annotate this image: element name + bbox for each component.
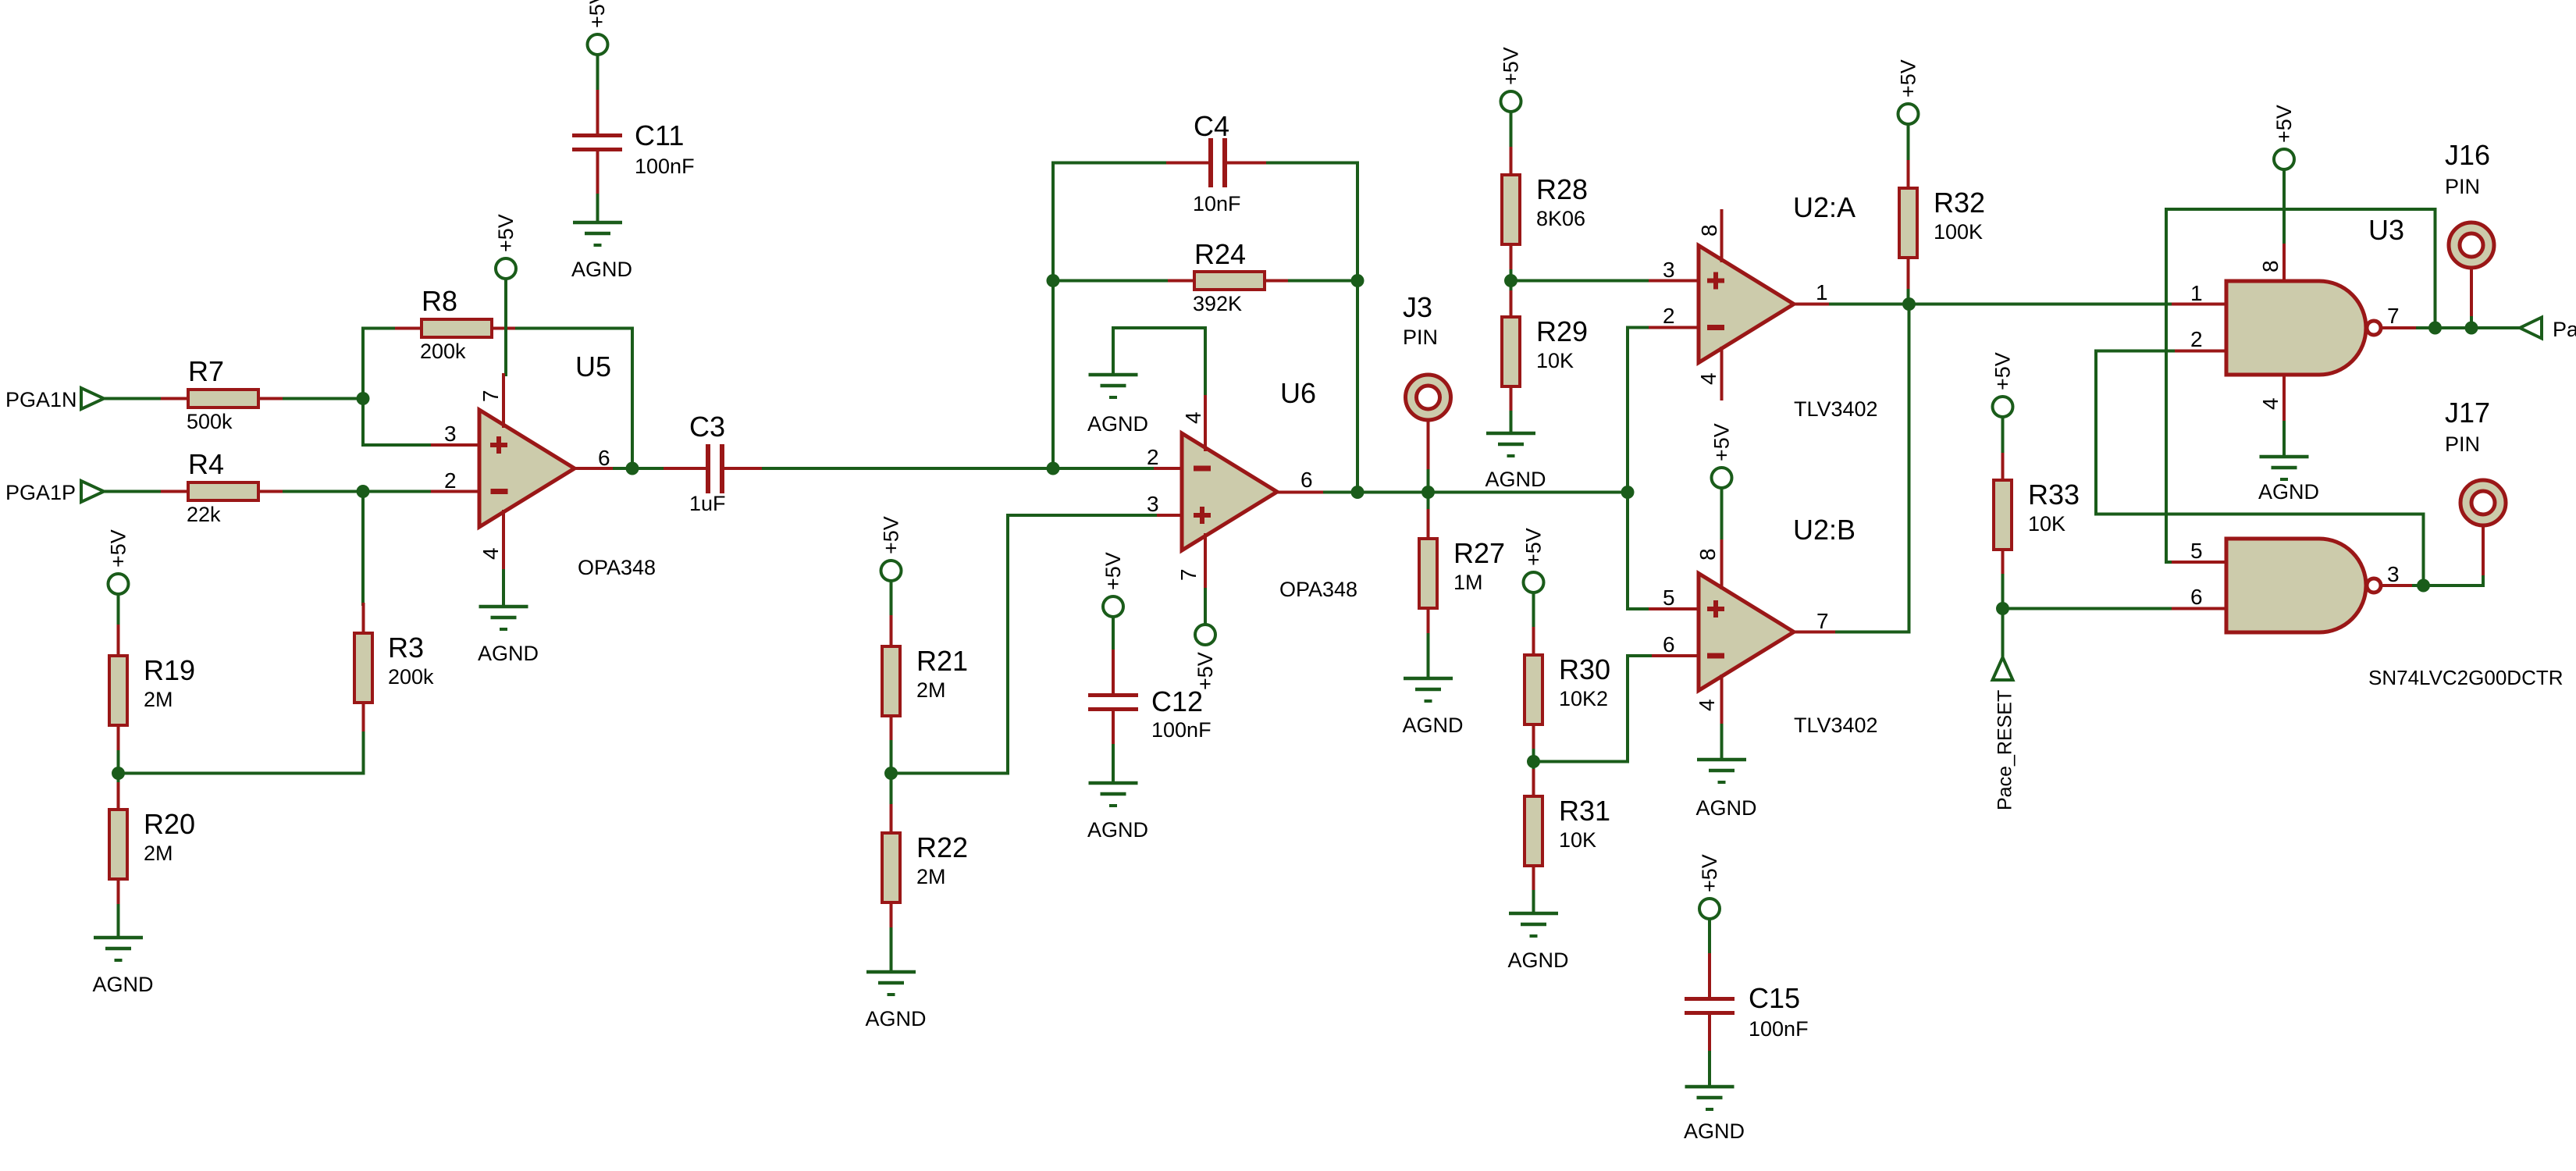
- svg-text:R4: R4: [188, 448, 224, 480]
- label AGND R29: [1485, 468, 1546, 491]
- svg-text:4: 4: [1695, 699, 1719, 711]
- resistor R22: [882, 806, 900, 929]
- svg-text:1: 1: [2190, 281, 2203, 305]
- svg-text:TLV3402: TLV3402: [1794, 397, 1878, 421]
- svg-text:Pa: Pa: [2553, 318, 2576, 341]
- value 10nF: [1193, 192, 1241, 215]
- svg-text:+5V: +5V: [1522, 528, 1546, 566]
- label J16: [2445, 139, 2490, 171]
- svg-text:U2:A: U2:A: [1793, 191, 1856, 223]
- wire U3B out: [2414, 584, 2424, 587]
- wire R30 to node M: [1532, 750, 1535, 762]
- svg-text:R20: R20: [144, 808, 195, 840]
- svg-text:6: 6: [1300, 468, 1313, 492]
- node D junction U5out/R8: [626, 462, 639, 475]
- value 22k: [187, 503, 221, 526]
- svg-text:C3: C3: [689, 411, 725, 443]
- label U3: [2368, 214, 2404, 246]
- wire feedback left vertical: [1051, 163, 1055, 469]
- node K junction R28/R29/pin3: [1504, 274, 1517, 287]
- wire R7 to node A: [284, 397, 363, 400]
- comparator U2:B: [1699, 574, 1794, 691]
- net label PGA1P: [5, 481, 76, 504]
- resistor R29: [1502, 292, 1520, 412]
- pin 6 stub U3B: [2173, 607, 2226, 610]
- wire PGA1N to R7: [104, 397, 162, 400]
- pin number 3 U6: [1147, 492, 1159, 516]
- pin number 5 U2B: [1663, 585, 1675, 610]
- label OPA348 U6: [1279, 578, 1357, 601]
- svg-text:AGND: AGND: [1485, 468, 1546, 491]
- pin number 2 U2A: [1663, 304, 1675, 328]
- svg-text:OPA348: OPA348: [578, 556, 656, 579]
- pin number 2 U6: [1147, 445, 1159, 469]
- wire node B down to R3: [361, 492, 365, 605]
- svg-text:6: 6: [1663, 632, 1675, 657]
- svg-text:AGND: AGND: [2258, 480, 2319, 504]
- svg-text:+5V: +5V: [107, 529, 130, 568]
- label +5V R32: [1897, 59, 1920, 98]
- wire J3 stem: [1427, 419, 1430, 493]
- power +5V terminal U2B: [1712, 468, 1732, 488]
- value 10K2: [1559, 687, 1608, 710]
- label AGND C11: [571, 258, 632, 281]
- wire +5V to R28: [1510, 112, 1513, 148]
- wire R29 to ground: [1510, 412, 1513, 433]
- ground AGND C15: [1685, 1087, 1735, 1109]
- node E junction feedback left: [1047, 462, 1060, 475]
- wire +5V to R32: [1907, 124, 1910, 162]
- svg-text:2M: 2M: [916, 678, 946, 702]
- ground AGND R20: [94, 938, 143, 960]
- wire node O to U3B pin6: [2003, 607, 2174, 610]
- pin 2 stub U2A: [1650, 326, 1699, 329]
- label PIN J16: [2445, 175, 2480, 198]
- svg-text:+5V: +5V: [1710, 423, 1734, 461]
- svg-text:2: 2: [1663, 304, 1675, 328]
- label R27: [1453, 537, 1505, 569]
- svg-text:4: 4: [2258, 397, 2282, 410]
- ground AGND U2B: [1697, 760, 1746, 782]
- label AGND R31: [1507, 949, 1568, 972]
- svg-text:7: 7: [1176, 568, 1201, 581]
- label C15: [1749, 982, 1800, 1014]
- wire +5V to C12: [1112, 617, 1115, 651]
- svg-text:100nF: 100nF: [1151, 718, 1212, 742]
- svg-text:+5V: +5V: [2272, 105, 2296, 143]
- power +5V terminal R32: [1898, 104, 1919, 124]
- label +5V U6pin7: [1194, 652, 1217, 690]
- label R8: [422, 285, 457, 317]
- pin 3 stub U5: [432, 443, 479, 447]
- svg-text:J17: J17: [2445, 397, 2490, 429]
- svg-text:4: 4: [1696, 372, 1720, 385]
- svg-text:R21: R21: [916, 645, 968, 677]
- pin 8 stub U2B: [1720, 538, 1724, 588]
- wire U2B out: [1837, 631, 1909, 634]
- wire node M to R31: [1532, 762, 1535, 771]
- pin number 8 U3A: [2258, 260, 2282, 272]
- resistor R21: [882, 617, 900, 742]
- resistor R7: [162, 390, 284, 408]
- svg-text:+5V: +5V: [1500, 47, 1523, 85]
- node J junction J3/R27: [1421, 486, 1435, 499]
- label R4: [188, 448, 224, 480]
- svg-text:J3: J3: [1403, 291, 1432, 323]
- svg-text:U6: U6: [1280, 377, 1316, 409]
- label R24: [1194, 238, 1246, 270]
- resistor R3: [354, 604, 372, 733]
- svg-text:2M: 2M: [916, 865, 946, 888]
- pin 2 stub U6: [1155, 467, 1182, 470]
- pin 7 stub U5: [502, 375, 505, 426]
- ground AGND R31: [1509, 913, 1558, 936]
- label R30: [1559, 653, 1610, 685]
- power +5V terminal R33: [1993, 397, 2013, 417]
- input terminal Pace_RESET: [1993, 657, 2013, 680]
- label C12: [1151, 685, 1203, 717]
- svg-text:5: 5: [2190, 539, 2203, 563]
- svg-text:3: 3: [1147, 492, 1159, 516]
- pin number 8 U2B: [1695, 548, 1720, 561]
- wire pin3 U5: [363, 443, 432, 447]
- svg-text:1uF: 1uF: [689, 492, 726, 515]
- label R19: [144, 654, 195, 686]
- connector J17 pad: [2460, 480, 2506, 525]
- svg-text:100nF: 100nF: [635, 155, 695, 178]
- resistor R4: [162, 482, 284, 500]
- node G junction R24 right: [1351, 274, 1364, 287]
- pin number 1 U2A: [1816, 280, 1828, 304]
- svg-text:10K: 10K: [2028, 512, 2065, 536]
- label TLV3402 U2B: [1794, 714, 1878, 737]
- nand gate U3:A: [2226, 281, 2366, 375]
- nand gate U3:B: [2226, 539, 2366, 632]
- label AGND R27: [1402, 714, 1463, 737]
- value 2M R21: [916, 678, 946, 702]
- value 100nF C12: [1151, 718, 1212, 742]
- op-amp U5 plus: [490, 436, 507, 454]
- svg-text:R32: R32: [1934, 187, 1985, 219]
- wire U3A out: [2418, 326, 2520, 329]
- svg-text:AGND: AGND: [865, 1007, 926, 1030]
- svg-text:R7: R7: [188, 355, 224, 387]
- svg-text:2M: 2M: [144, 842, 173, 865]
- wire R24 left: [1053, 279, 1169, 283]
- resistor R28: [1502, 148, 1520, 271]
- wire node H to U6 pin3: [891, 515, 1156, 774]
- power +5V terminal U6: [1195, 625, 1215, 645]
- wire U2 inputs vertical: [1626, 328, 1629, 610]
- pin number 4 U2B: [1695, 699, 1719, 711]
- label U2:B: [1793, 514, 1856, 546]
- label PIN J17: [2445, 432, 2480, 456]
- ground AGND R29: [1486, 433, 1535, 456]
- value 1M: [1453, 571, 1483, 594]
- svg-text:1M: 1M: [1453, 571, 1483, 594]
- value 10K R29: [1536, 349, 1574, 372]
- pin number 1 U3A: [2190, 281, 2203, 305]
- connector J3 pad: [1406, 375, 1451, 420]
- label U6: [1280, 377, 1316, 409]
- output bubble U3A: [2367, 321, 2381, 335]
- svg-text:PIN: PIN: [2445, 175, 2480, 198]
- input terminal PGA1N: [81, 388, 104, 409]
- capacitor C3: [665, 444, 763, 493]
- op-amp U6: [1182, 433, 1277, 550]
- wire U6 pin7 to +5V: [1204, 589, 1207, 625]
- label U5: [575, 351, 611, 383]
- label J3: [1403, 291, 1432, 323]
- power +5V terminal R19: [109, 574, 129, 594]
- label OPA348 U5: [578, 556, 656, 579]
- svg-text:4: 4: [1181, 411, 1205, 424]
- pin 5 stub U2B: [1650, 607, 1699, 610]
- ground AGND U6: [1089, 375, 1138, 397]
- svg-text:+5V: +5V: [1897, 59, 1920, 98]
- svg-text:+5V: +5V: [494, 214, 518, 252]
- pin number 3 U3B: [2387, 562, 2400, 586]
- pin number 8 U2A: [1697, 224, 1721, 237]
- svg-text:200k: 200k: [420, 340, 466, 363]
- ground AGND R27: [1404, 678, 1453, 701]
- svg-text:+5V: +5V: [880, 516, 903, 554]
- pin number 4 U2A: [1696, 372, 1720, 385]
- svg-text:1: 1: [1816, 280, 1828, 304]
- label C11: [635, 119, 684, 151]
- op-amp U5: [479, 410, 575, 527]
- label AGND C12: [1087, 818, 1148, 842]
- svg-text:AGND: AGND: [1087, 412, 1148, 436]
- pin 4 stub U3A: [2282, 375, 2286, 422]
- node O junction R33/pin6/Pace_RESET: [1996, 602, 2009, 615]
- pin number 7 U5: [479, 390, 503, 402]
- wire feedback right vertical: [1356, 163, 1359, 493]
- label R3: [388, 632, 424, 664]
- wire wired-or vertical: [1908, 304, 1911, 632]
- svg-text:200k: 200k: [388, 665, 434, 689]
- wire +5V to pin7 U5: [504, 279, 507, 375]
- wire +5V to R21: [890, 581, 893, 617]
- wire R21 to node H: [890, 742, 893, 774]
- svg-text:2: 2: [1147, 445, 1159, 469]
- net label PGA1N: [5, 388, 77, 411]
- value 8K06: [1536, 207, 1585, 230]
- op-amp U6 minus: [1194, 466, 1211, 472]
- power +5V terminal C11: [588, 34, 608, 55]
- svg-text:AGND: AGND: [1402, 714, 1463, 737]
- value 10K R33: [2028, 512, 2065, 536]
- svg-text:R28: R28: [1536, 173, 1588, 205]
- svg-text:TLV3402: TLV3402: [1794, 714, 1878, 737]
- wire node K to U2A pin3: [1511, 279, 1651, 283]
- capacitor C4: [1168, 138, 1268, 187]
- capacitor C15: [1685, 955, 1735, 1052]
- connector J16 pad: [2449, 222, 2494, 268]
- svg-text:R30: R30: [1559, 653, 1610, 685]
- pin 1 stub U2A: [1794, 303, 1831, 306]
- svg-text:+5V: +5V: [585, 0, 609, 28]
- svg-text:10nF: 10nF: [1193, 192, 1241, 215]
- label AGND C15: [1684, 1119, 1745, 1143]
- svg-text:U3: U3: [2368, 214, 2404, 246]
- wire C3 to U6 pin2: [763, 467, 1155, 470]
- svg-text:2M: 2M: [144, 688, 173, 711]
- svg-text:U2:B: U2:B: [1793, 514, 1856, 546]
- svg-text:J16: J16: [2445, 139, 2490, 171]
- label R32: [1934, 187, 1985, 219]
- svg-text:+5V: +5V: [1101, 552, 1125, 590]
- wire R3 bottom to node C: [119, 733, 364, 774]
- svg-text:500k: 500k: [187, 410, 233, 433]
- resistor R24: [1169, 272, 1290, 290]
- pin 1 stub U3A: [2173, 303, 2226, 306]
- svg-text:C4: C4: [1194, 110, 1229, 142]
- value 100K: [1934, 220, 1983, 244]
- wire PGA1P to R4: [104, 490, 162, 493]
- svg-text:10K: 10K: [1536, 349, 1574, 372]
- node F junction R24 left: [1047, 274, 1060, 287]
- svg-text:100nF: 100nF: [1749, 1017, 1809, 1041]
- svg-text:7: 7: [1816, 609, 1829, 633]
- svg-text:2: 2: [2190, 327, 2203, 351]
- node Q junction J16: [2465, 322, 2478, 335]
- label +5V R21: [880, 516, 903, 554]
- net label Pace_RESET: [1994, 690, 2016, 810]
- svg-text:SN74LVC2G00DCTR: SN74LVC2G00DCTR: [2368, 666, 2564, 689]
- svg-text:8: 8: [2258, 260, 2282, 272]
- wire R19 to node C: [117, 752, 120, 774]
- svg-text:AGND: AGND: [1684, 1119, 1745, 1143]
- resistor R30: [1525, 628, 1542, 750]
- svg-text:3: 3: [444, 422, 457, 446]
- value 2M R22: [916, 865, 946, 888]
- pin number 5 U3B: [2190, 539, 2203, 563]
- pin number 4 U5: [479, 547, 503, 560]
- pin 6 stub U6: [1277, 491, 1325, 494]
- ground AGND U5: [479, 607, 528, 629]
- resistor R32: [1899, 162, 1917, 290]
- wire R4 to pin2 U5: [284, 490, 432, 493]
- ground AGND R22: [866, 972, 916, 995]
- label R20: [144, 808, 195, 840]
- svg-text:C15: C15: [1749, 982, 1800, 1014]
- svg-text:R31: R31: [1559, 795, 1610, 827]
- label +5V U2B: [1710, 423, 1734, 461]
- svg-text:PGA1N: PGA1N: [5, 388, 77, 411]
- pin 4 stub U2A: [1720, 348, 1724, 399]
- value 200k R3: [388, 665, 434, 689]
- value 10K R31: [1559, 828, 1596, 852]
- power +5V terminal C15: [1699, 899, 1720, 919]
- wire U5 pin4 to ground: [502, 571, 505, 607]
- ground AGND C11: [573, 222, 622, 245]
- pin 4 stub U5: [502, 511, 505, 571]
- node R junction U3B out: [2417, 579, 2430, 593]
- svg-text:R8: R8: [422, 285, 457, 317]
- svg-text:AGND: AGND: [1507, 949, 1568, 972]
- value 1uF: [689, 492, 726, 515]
- label +5V C15: [1698, 854, 1721, 892]
- value 500k: [187, 410, 233, 433]
- wire C15 to ground: [1708, 1052, 1711, 1087]
- wire feedback U3A out to U3B pin5: [2166, 209, 2435, 562]
- label PIN J3: [1403, 326, 1438, 349]
- U2:B plus: [1707, 600, 1724, 618]
- label +5V C11: [585, 0, 609, 28]
- resistor R27: [1419, 511, 1437, 635]
- label +5V U5: [494, 214, 518, 252]
- pin number 2 U5: [444, 468, 457, 493]
- svg-text:10K: 10K: [1559, 828, 1596, 852]
- wire node O to Pace_RESET: [2001, 609, 2005, 658]
- svg-text:100K: 100K: [1934, 220, 1983, 244]
- label +5V R28: [1500, 47, 1523, 85]
- wire +5V to R30: [1532, 593, 1535, 628]
- wire R32 to node N: [1907, 290, 1910, 304]
- node L junction main/U2 inputs: [1621, 486, 1635, 499]
- pin number 6 U2B: [1663, 632, 1675, 657]
- svg-text:3: 3: [2387, 562, 2400, 586]
- op-amp U6 plus: [1194, 507, 1211, 524]
- label R21: [916, 645, 968, 677]
- resistor R31: [1525, 771, 1542, 892]
- pin number 4 U3A: [2258, 397, 2282, 410]
- label +5V R30: [1522, 528, 1546, 566]
- pin 8 stub U3A: [2282, 245, 2286, 281]
- label TLV3402 U2A: [1794, 397, 1878, 421]
- wire feedback top left: [1053, 162, 1168, 165]
- pin number 6 U5: [598, 446, 610, 470]
- pin number 7 U6: [1176, 568, 1201, 581]
- wire R27 to ground: [1427, 635, 1430, 678]
- pin 2 stub U5: [432, 490, 479, 493]
- svg-text:392K: 392K: [1193, 292, 1242, 315]
- node A junction R7/R8/pin3: [357, 392, 370, 405]
- power +5V terminal R21: [881, 561, 902, 581]
- value 2M R19: [144, 688, 173, 711]
- pin 3 stub U3B: [2382, 584, 2414, 587]
- U2:B minus: [1707, 653, 1724, 659]
- pin number 6 U6: [1300, 468, 1313, 492]
- label AGND U3A: [2258, 480, 2319, 504]
- wire R28 to node K: [1510, 271, 1513, 281]
- svg-text:6: 6: [598, 446, 610, 470]
- svg-text:AGND: AGND: [571, 258, 632, 281]
- label R29: [1536, 315, 1588, 347]
- wire R24 right: [1290, 279, 1357, 283]
- pin 4 stub U2B: [1720, 676, 1724, 725]
- wire +5V to R19: [117, 594, 120, 626]
- svg-text:3: 3: [1663, 258, 1675, 282]
- wire node M to U2B pin6: [1534, 656, 1651, 762]
- label +5V U3: [2272, 105, 2296, 143]
- output bubble U3B: [2367, 578, 2381, 593]
- pin number 7 U2B: [1816, 609, 1829, 633]
- node N junction R32/outputs: [1902, 297, 1916, 311]
- pin number 7 U3A: [2387, 304, 2400, 328]
- power +5V terminal R30: [1524, 572, 1544, 593]
- label R22: [916, 831, 968, 863]
- wire U3B out to pin2 crosscouple: [2096, 351, 2424, 586]
- node P junction feedback: [2428, 322, 2442, 335]
- capacitor C11: [572, 91, 622, 195]
- label +5V R19: [107, 529, 130, 568]
- svg-text:AGND: AGND: [1695, 796, 1756, 820]
- svg-text:R29: R29: [1536, 315, 1588, 347]
- svg-text:8: 8: [1695, 548, 1720, 561]
- pin number 3 U5: [444, 422, 457, 446]
